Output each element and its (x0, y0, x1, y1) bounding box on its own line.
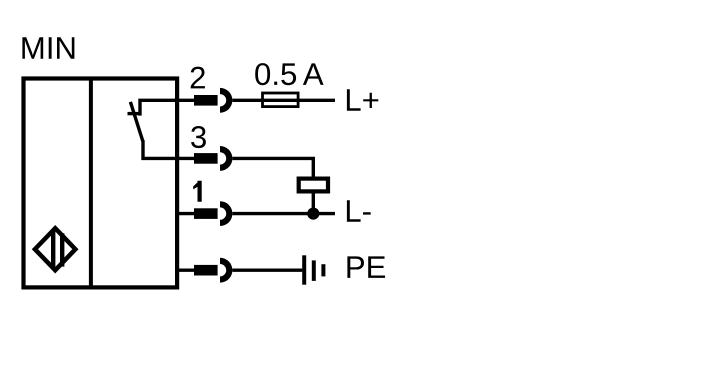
inductive sensor symbol right bar (60, 233, 64, 266)
connector pin 2 contact (194, 95, 218, 106)
net label L+ (347, 89, 378, 111)
ground bar 3 (321, 264, 325, 276)
wire: load to L- node (312, 192, 315, 214)
inductive sensor symbol left bar (51, 230, 55, 269)
wire: pin 2 to L+ (232, 99, 335, 102)
pin label 2 (191, 67, 205, 89)
fuse value 0.5 A (255, 63, 323, 85)
wire: box edge to pin 1 (176, 212, 194, 215)
pin label 1 (193, 181, 202, 202)
wire: switch bottom to pin 3 (143, 140, 194, 158)
connector pin 2 socket arc (220, 88, 232, 113)
net label PE (347, 256, 385, 278)
fuse F1 (263, 93, 299, 107)
junction node (307, 208, 319, 220)
connector pin 1 contact (194, 208, 218, 219)
net label L- (347, 200, 371, 222)
wire: pin 1 to L- (232, 212, 335, 215)
connector pin 3 socket arc (220, 146, 232, 171)
sensor body box (24, 79, 178, 288)
pin label 3 (191, 126, 206, 148)
load resistor (299, 179, 328, 192)
ground bar 2 (312, 260, 316, 281)
sensor body divider (89, 79, 93, 288)
wire: pin 3 to load (232, 158, 313, 178)
ground bar 1 (302, 255, 306, 284)
wire: pin 2 to switch top (140, 100, 194, 115)
connector pin 3 contact (194, 153, 218, 164)
connector PE contact (194, 265, 218, 276)
label MIN (22, 37, 74, 59)
inductive sensor symbol (diamond) (35, 228, 76, 270)
connector pin 1 socket arc (220, 201, 232, 226)
connector PE socket arc (220, 258, 232, 283)
wire: box edge to PE pin (176, 269, 194, 272)
switch blade (130, 102, 143, 142)
switch fixed contact seat (128, 112, 141, 115)
wire: PE pin to ground (232, 269, 302, 272)
